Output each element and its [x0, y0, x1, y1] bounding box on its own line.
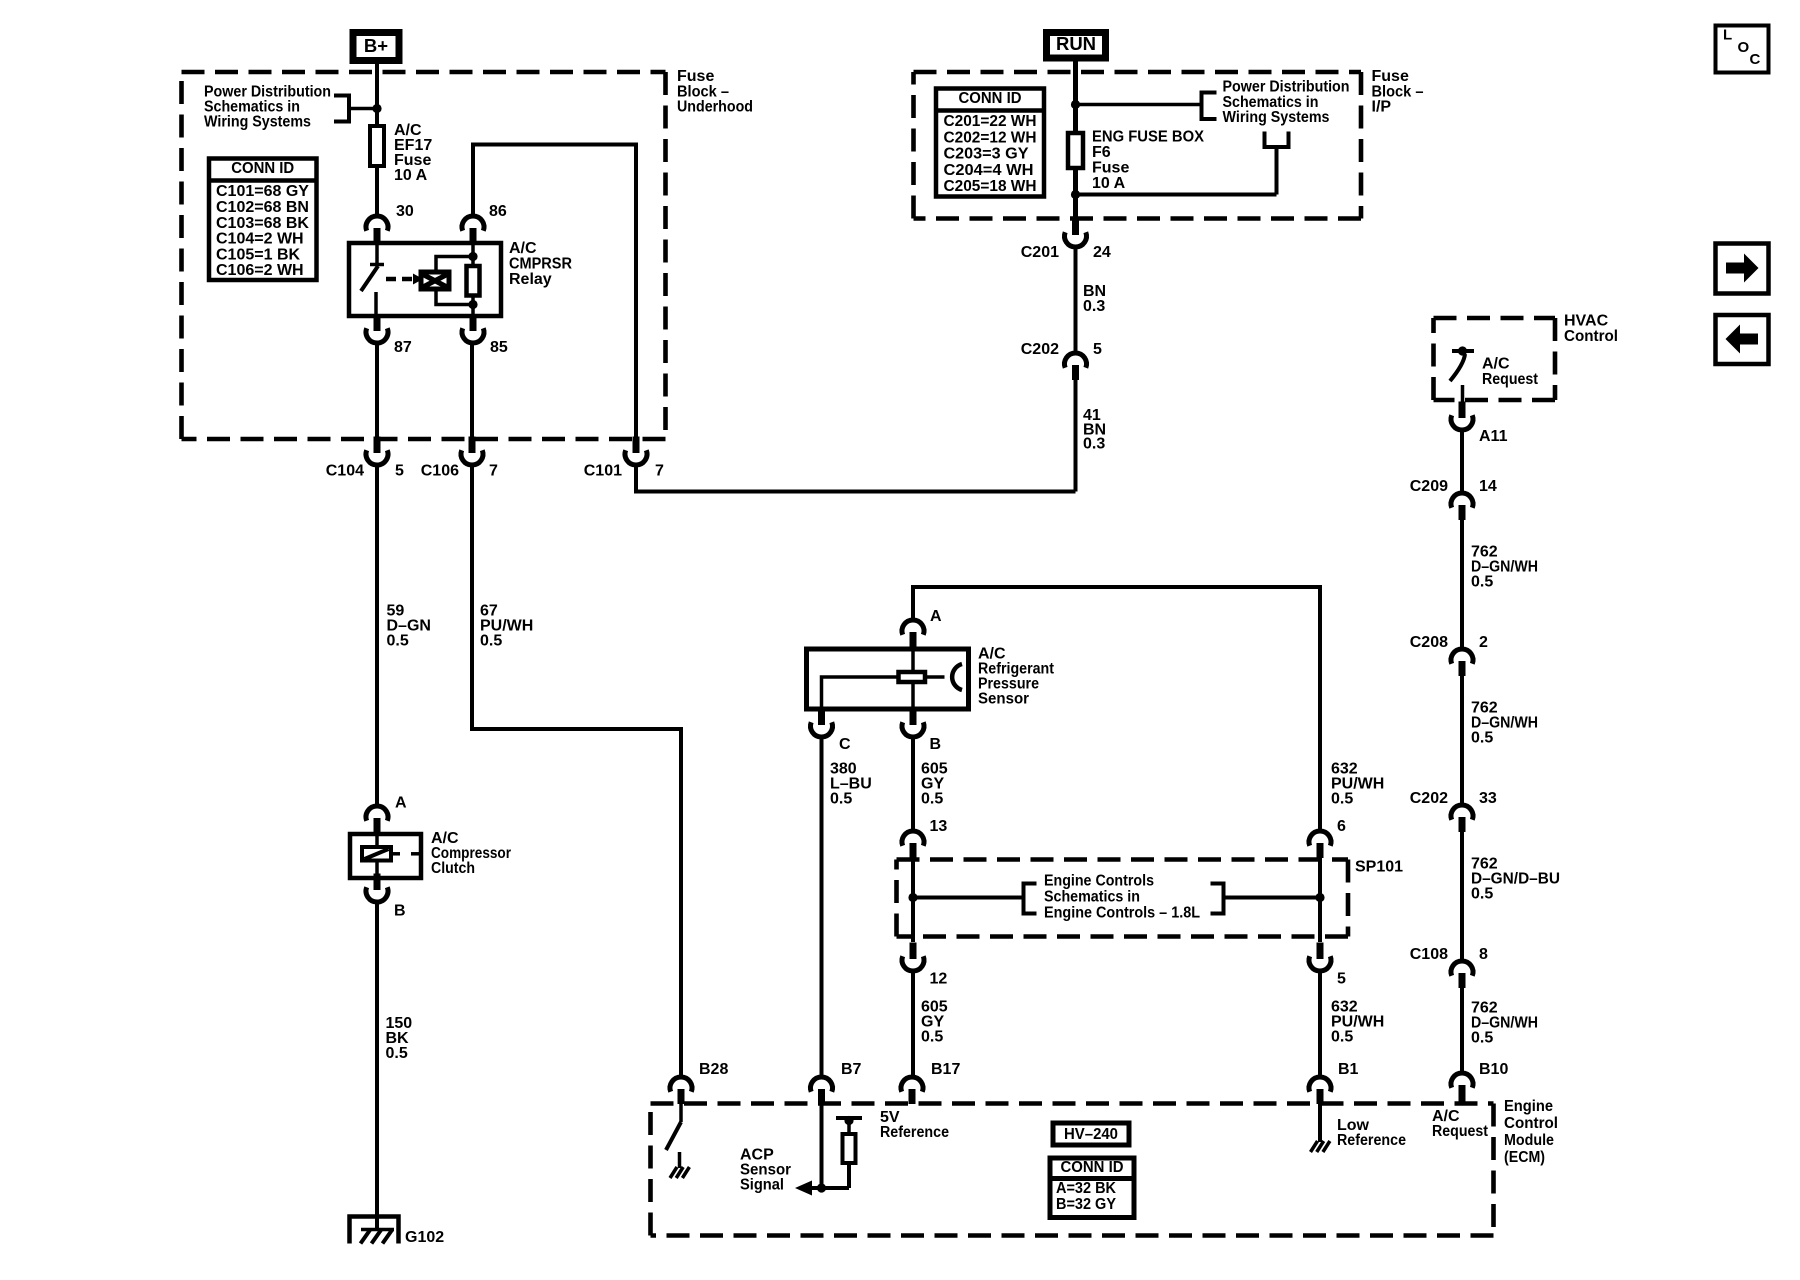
- connector pin 12: [910, 943, 917, 960]
- wire F6 to C201: [1073, 168, 1078, 219]
- wire 41 BN: [1074, 380, 1078, 492]
- sensor element resistor: [899, 672, 926, 682]
- ECM low reference ground: [1318, 1104, 1322, 1142]
- svg-text:7: 7: [489, 463, 498, 480]
- grid HV-240 label box: [1053, 1123, 1129, 1145]
- relay pin 30 connector: [366, 216, 388, 231]
- svg-text:C203=3 GY: C203=3 GY: [944, 146, 1029, 163]
- svg-text:C108: C108: [1410, 946, 1448, 963]
- wire tap to bracket IP: [1076, 103, 1201, 107]
- svg-text:B=32 GY: B=32 GY: [1056, 1196, 1116, 1213]
- svg-text:C208: C208: [1410, 634, 1448, 651]
- connector B7: [810, 1077, 832, 1092]
- svg-text:0.5: 0.5: [387, 633, 409, 650]
- sensor internal wiring: [911, 646, 915, 711]
- connector C202 pin 5: [1065, 353, 1087, 368]
- svg-text:5: 5: [395, 463, 404, 480]
- wire coil bottom to resistor: [436, 289, 473, 305]
- wire 762 D-GN/D-BU seg3: [1460, 832, 1464, 961]
- wire sensor A to 632 net: [913, 587, 1320, 831]
- svg-text:C202: C202: [1021, 341, 1059, 358]
- svg-text:B1: B1: [1338, 1061, 1359, 1078]
- svg-text:0.5: 0.5: [921, 1029, 943, 1046]
- connector C104 pin 5: [374, 437, 381, 454]
- CONN ID table ECM: [1050, 1158, 1134, 1218]
- svg-text:CONN ID: CONN ID: [231, 160, 294, 177]
- svg-text:Control: Control: [1504, 1115, 1558, 1132]
- svg-text:RUN: RUN: [1056, 33, 1096, 54]
- svg-text:A: A: [930, 608, 942, 625]
- svg-text:A: A: [395, 795, 407, 812]
- 5V reference rail and pull-up resistor: [836, 1116, 862, 1120]
- svg-text:L: L: [1723, 26, 1732, 43]
- svg-text:(ECM): (ECM): [1504, 1149, 1545, 1166]
- svg-text:10 A: 10 A: [1092, 175, 1126, 192]
- svg-text:Schematics in: Schematics in: [1044, 889, 1140, 906]
- svg-text:Request: Request: [1432, 1123, 1489, 1140]
- fuse block IP dashed box: [914, 70, 1362, 75]
- ECM dashed box: [651, 1101, 1494, 1106]
- svg-text:A/C: A/C: [509, 240, 537, 257]
- sensor pin A connector: [902, 620, 924, 635]
- svg-text:Engine: Engine: [1504, 1098, 1553, 1115]
- svg-text:24: 24: [1093, 244, 1111, 261]
- svg-text:C104=2 WH: C104=2 WH: [216, 231, 304, 248]
- svg-text:C205=18 WH: C205=18 WH: [944, 178, 1037, 195]
- wire 605 GY to SP101: [911, 737, 915, 831]
- svg-text:A=32 BK: A=32 BK: [1056, 1180, 1116, 1197]
- bracket power distribution ref: [334, 96, 349, 122]
- svg-text:0.5: 0.5: [386, 1045, 408, 1062]
- svg-text:Engine Controls: Engine Controls: [1044, 873, 1154, 890]
- svg-text:Sensor: Sensor: [978, 691, 1029, 708]
- fuse EF17: [370, 126, 384, 166]
- wire tap to bracket: [350, 107, 377, 111]
- svg-text:0.5: 0.5: [1331, 1029, 1353, 1046]
- connector pin 6: [1309, 831, 1331, 846]
- bracket return link: [1265, 132, 1289, 148]
- wire relay 85 to C106: [470, 343, 474, 440]
- wire coil top to resistor: [436, 257, 473, 273]
- svg-text:0.5: 0.5: [1331, 791, 1353, 808]
- svg-text:C202=12 WH: C202=12 WH: [944, 129, 1037, 146]
- relay armature dashed link: [386, 277, 413, 282]
- svg-text:0.3: 0.3: [1083, 298, 1105, 315]
- node F6 tap: [1071, 100, 1080, 109]
- svg-text:30: 30: [396, 203, 414, 220]
- wire 150 BK to ground: [375, 902, 379, 1229]
- connector C209 pin 14: [1451, 493, 1473, 508]
- svg-text:B28: B28: [699, 1061, 728, 1078]
- svg-text:B7: B7: [841, 1061, 862, 1078]
- connector C208 pin 2: [1451, 649, 1473, 664]
- connector B1: [1309, 1077, 1331, 1092]
- svg-text:B17: B17: [931, 1061, 960, 1078]
- bracket power distribution ref IP: [1202, 93, 1217, 120]
- connector C106 pin 7: [469, 437, 476, 454]
- fuse ENG FUSE BOX F6: [1068, 133, 1083, 168]
- svg-text:B10: B10: [1479, 1061, 1508, 1078]
- relay pin 85 connector: [470, 315, 477, 332]
- svg-text:C202: C202: [1410, 790, 1448, 807]
- connector C201 pin 24: [1072, 219, 1079, 236]
- svg-text:C101: C101: [584, 463, 622, 480]
- svg-text:0.5: 0.5: [1471, 886, 1493, 903]
- svg-text:I/P: I/P: [1372, 99, 1392, 116]
- svg-text:Underhood: Underhood: [677, 99, 753, 116]
- ECM B28 switch to ground: [679, 1104, 683, 1122]
- svg-text:5: 5: [1337, 971, 1346, 988]
- svg-text:A11: A11: [1479, 428, 1508, 445]
- wire fuse to relay pin 30: [375, 166, 379, 216]
- svg-text:Relay: Relay: [509, 271, 552, 288]
- wire B7 to ACP junction: [820, 1104, 824, 1188]
- back arrow box: [1716, 315, 1769, 364]
- LOC legend box: [1716, 26, 1769, 73]
- A/C compressor clutch box: [350, 834, 421, 878]
- svg-text:0.5: 0.5: [480, 633, 502, 650]
- svg-text:5: 5: [1093, 341, 1102, 358]
- sensor pin C connector: [818, 709, 825, 726]
- splice right wire: [1224, 896, 1321, 900]
- SP101 dashed box: [897, 857, 1349, 862]
- svg-text:Reference: Reference: [1337, 1132, 1406, 1149]
- wire relay 86 to C101: [473, 145, 636, 441]
- svg-text:B+: B+: [364, 35, 388, 56]
- svg-text:SP101: SP101: [1355, 859, 1403, 876]
- svg-text:87: 87: [394, 339, 412, 356]
- svg-text:8: 8: [1479, 946, 1488, 963]
- svg-text:Wiring Systems: Wiring Systems: [204, 114, 311, 131]
- svg-text:HVAC: HVAC: [1564, 313, 1609, 330]
- relay switch 30-87: [375, 243, 379, 263]
- svg-text:Request: Request: [1482, 371, 1539, 388]
- svg-text:Control: Control: [1564, 328, 1618, 345]
- svg-text:C204=4 WH: C204=4 WH: [944, 162, 1034, 179]
- svg-text:C201: C201: [1021, 244, 1059, 261]
- svg-text:Signal: Signal: [740, 1177, 784, 1194]
- wire 632 PU/WH to B1: [1318, 971, 1322, 1077]
- ground G102: [350, 1217, 399, 1244]
- sensor pressure port symbol: [952, 664, 962, 690]
- sensor pin B connector: [910, 709, 917, 726]
- svg-text:C106=2 WH: C106=2 WH: [216, 262, 304, 279]
- connector C101 pin 7: [633, 437, 640, 454]
- clutch pin A connector: [366, 806, 388, 821]
- wire 67 PU/WH to ECM B28: [472, 465, 681, 1077]
- connector C202 pin 33: [1451, 805, 1473, 820]
- connector A11: [1459, 402, 1466, 419]
- CONN ID table C101-C106: [209, 159, 317, 281]
- svg-text:B: B: [930, 736, 942, 753]
- node power-distribution tap: [372, 104, 381, 113]
- svg-text:CONN ID: CONN ID: [959, 90, 1022, 107]
- wire 380 L-BU to B7: [820, 737, 824, 1077]
- wire 762 D-GN/WH seg2: [1460, 676, 1464, 805]
- svg-text:Clutch: Clutch: [431, 860, 475, 877]
- RUN power symbol: [1047, 33, 1106, 59]
- fuse block underhood dashed box: [182, 70, 666, 75]
- svg-text:C102=68 BN: C102=68 BN: [216, 199, 309, 216]
- svg-text:86: 86: [489, 203, 507, 220]
- svg-text:Module: Module: [1504, 1132, 1554, 1149]
- wire C101 to 41 BN: [636, 465, 1076, 492]
- svg-text:C201=22 WH: C201=22 WH: [944, 113, 1037, 130]
- relay pin 87 connector: [374, 315, 381, 332]
- svg-text:14: 14: [1479, 478, 1497, 495]
- svg-text:10 A: 10 A: [394, 167, 428, 184]
- wire A11 to C209: [1460, 430, 1464, 493]
- bracket engine controls left: [1024, 884, 1037, 914]
- svg-text:0.5: 0.5: [1471, 574, 1493, 591]
- svg-text:0.5: 0.5: [921, 791, 943, 808]
- svg-text:C106: C106: [421, 463, 459, 480]
- connector B10: [1451, 1073, 1473, 1088]
- B+ power symbol: [353, 33, 399, 61]
- svg-text:O: O: [1738, 39, 1750, 56]
- ACP sensor signal arrow: [806, 1186, 849, 1190]
- wire B+ to fuse EF17: [375, 64, 379, 126]
- svg-text:0.3: 0.3: [1083, 436, 1105, 453]
- relay pin 86 connector: [462, 216, 484, 231]
- svg-text:2: 2: [1479, 634, 1488, 651]
- forward arrow box: [1716, 244, 1769, 294]
- HVAC control dashed box: [1434, 316, 1556, 321]
- wire 605 GY to B17: [911, 971, 915, 1077]
- svg-text:0.5: 0.5: [1471, 1030, 1493, 1047]
- A/C refrigerant pressure sensor box: [807, 649, 969, 709]
- svg-text:Reference: Reference: [880, 1124, 949, 1141]
- svg-text:CMPRSR: CMPRSR: [509, 256, 572, 273]
- CONN ID table C201-C205: [936, 89, 1044, 197]
- wire 59 D-GN to clutch: [375, 465, 379, 806]
- svg-text:C: C: [839, 736, 851, 753]
- svg-text:0.5: 0.5: [830, 791, 852, 808]
- wire 762 D-GN/WH seg4: [1460, 988, 1464, 1073]
- svg-text:12: 12: [930, 971, 948, 988]
- splice left wire: [911, 858, 915, 942]
- connector B17: [901, 1077, 923, 1092]
- svg-text:C209: C209: [1410, 478, 1448, 495]
- wire return link to main: [1076, 193, 1277, 197]
- A/C request switch: [1452, 349, 1474, 353]
- relay coil suppression resistor: [471, 243, 475, 316]
- wire 24 BN: [1074, 247, 1078, 353]
- A/C CMPRSR relay box: [349, 243, 501, 316]
- svg-text:C103=68 BK: C103=68 BK: [216, 215, 309, 232]
- svg-text:85: 85: [490, 339, 508, 356]
- svg-text:Engine Controls – 1.8L: Engine Controls – 1.8L: [1044, 905, 1200, 922]
- svg-text:CONN ID: CONN ID: [1061, 1159, 1124, 1176]
- bracket engine controls right: [1211, 884, 1224, 914]
- svg-text:C: C: [1750, 51, 1761, 68]
- svg-text:A/C: A/C: [1482, 356, 1510, 373]
- wire 762 D-GN/WH seg1: [1460, 520, 1464, 649]
- connector pin 5 splice: [1317, 943, 1324, 960]
- connector pin 13: [902, 831, 924, 846]
- svg-text:Wiring Systems: Wiring Systems: [1223, 109, 1330, 126]
- svg-text:0.5: 0.5: [1471, 730, 1493, 747]
- svg-text:6: 6: [1337, 818, 1346, 835]
- connector B28: [670, 1077, 692, 1092]
- svg-text:HV–240: HV–240: [1064, 1126, 1118, 1143]
- svg-text:C104: C104: [326, 463, 364, 480]
- svg-text:13: 13: [930, 818, 948, 835]
- svg-text:C105=1 BK: C105=1 BK: [216, 246, 300, 263]
- clutch coil symbol: [375, 834, 379, 878]
- clutch pin B connector: [374, 874, 381, 891]
- svg-text:7: 7: [655, 463, 664, 480]
- svg-text:33: 33: [1479, 790, 1497, 807]
- wire RUN to fuse F6: [1073, 61, 1078, 133]
- relay coil: [421, 272, 449, 289]
- wire relay 87 to C104: [375, 343, 379, 440]
- svg-text:G102: G102: [405, 1229, 444, 1246]
- connector C108 pin 8: [1451, 961, 1473, 976]
- svg-text:B: B: [394, 903, 406, 920]
- svg-text:C101=68 GY: C101=68 GY: [216, 183, 309, 200]
